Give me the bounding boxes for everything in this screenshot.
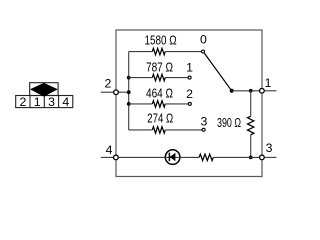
- svg-text:3: 3: [266, 141, 273, 155]
- row3 left wire: [129, 103, 153, 105]
- row4 left wire: [129, 129, 153, 131]
- wire diode to resistor: [180, 156, 199, 158]
- connector cell divider c: [58, 96, 60, 108]
- svg-text:2: 2: [19, 95, 26, 109]
- switch contact 0: [202, 50, 205, 53]
- connector rotor diamond: [30, 83, 58, 97]
- svg-text:4: 4: [62, 95, 69, 109]
- svg-text:3: 3: [48, 95, 55, 109]
- resistor 274 ohm: [152, 127, 165, 133]
- terminal 2 lead: [101, 91, 114, 93]
- row3 right wire: [165, 103, 188, 105]
- connector pictogram outer frame: [16, 96, 73, 108]
- svg-text:274 Ω: 274 Ω: [147, 112, 173, 126]
- wire 390 down to bottom row: [250, 135, 252, 158]
- row4 right wire: [165, 129, 202, 131]
- terminal 3 lead: [265, 156, 277, 158]
- switch wiper: [204, 53, 231, 91]
- junction dot bottom: [249, 156, 253, 160]
- terminal 1: [260, 88, 265, 93]
- svg-text:1: 1: [265, 76, 272, 90]
- resistor 1580 ohm: [152, 48, 165, 54]
- terminal 1 lead: [265, 90, 277, 92]
- connector rotor housing: [30, 83, 58, 96]
- switch contact 1: [188, 76, 191, 79]
- switch contact 2: [188, 102, 191, 105]
- wiper pivot dot: [230, 89, 234, 93]
- resistor 787 ohm: [152, 74, 165, 80]
- left bus wire: [128, 52, 130, 130]
- row1 right wire: [165, 51, 201, 53]
- svg-text:464 Ω: 464 Ω: [146, 86, 173, 100]
- lamp series resistor: [199, 154, 213, 160]
- wire pivot to terminal1: [232, 90, 260, 92]
- svg-text:4: 4: [106, 143, 113, 157]
- terminal 3: [260, 155, 265, 160]
- switch contact 3: [202, 128, 205, 131]
- row2 left wire: [129, 77, 153, 79]
- connector cell divider b: [43, 96, 45, 108]
- junction dot common/390: [249, 89, 253, 93]
- wire resistor to terminal3: [213, 156, 259, 158]
- bus junction terminal2: [127, 90, 131, 94]
- svg-text:1: 1: [186, 61, 193, 75]
- svg-text:1580 Ω: 1580 Ω: [145, 33, 177, 47]
- connector cell divider a: [29, 96, 31, 108]
- svg-text:390 Ω: 390 Ω: [217, 116, 241, 130]
- row1 left wire: [129, 51, 153, 53]
- diode wire through: [165, 156, 181, 158]
- terminal 4 lead: [101, 156, 113, 158]
- bus junction row3: [127, 102, 131, 106]
- wire terminal2 to bus: [119, 91, 129, 93]
- svg-text:2: 2: [186, 87, 193, 101]
- svg-text:2: 2: [104, 77, 111, 91]
- terminal 4: [114, 155, 119, 160]
- wire terminal4 to diode: [119, 156, 165, 158]
- row2 right wire: [165, 77, 188, 79]
- diode triangle: [170, 153, 176, 162]
- bus junction row2: [127, 76, 131, 80]
- svg-text:0: 0: [200, 33, 207, 47]
- wire junction down to 390: [250, 91, 252, 117]
- resistor 390 ohm vertical: [248, 116, 254, 134]
- svg-text:3: 3: [200, 114, 207, 128]
- diode circle: [165, 150, 180, 165]
- terminal 2: [114, 90, 119, 95]
- enclosure box: [116, 30, 262, 177]
- diode cathode bar: [168, 153, 170, 162]
- resistor 464 ohm: [152, 101, 165, 107]
- svg-text:1: 1: [34, 95, 41, 109]
- svg-text:787 Ω: 787 Ω: [146, 60, 173, 74]
